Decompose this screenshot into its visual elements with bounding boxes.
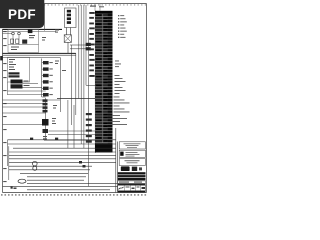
sensor B3	[42, 74, 53, 77]
valve Y2	[43, 103, 48, 106]
breaker Q1 cross	[64, 35, 71, 43]
title block left boundary	[117, 142, 119, 193]
terminal X4	[86, 47, 91, 50]
buzzer H1	[33, 161, 38, 166]
wire bus L1	[3, 52, 76, 54]
inline device d1	[30, 138, 33, 140]
wire g1	[23, 82, 39, 84]
relay K6	[11, 84, 23, 88]
svg-text:PDF: PDF	[8, 7, 36, 22]
relay K1 box	[28, 29, 33, 33]
pushbutton S1	[12, 32, 15, 35]
pushbutton S2	[18, 32, 21, 35]
logo mark 3	[139, 167, 142, 170]
drawing frame bottom border	[3, 192, 147, 194]
sensor B1	[42, 61, 53, 64]
wire chain2 w4	[3, 123, 43, 125]
wire chain2 w3	[3, 112, 46, 114]
K5 label	[24, 81, 30, 87]
title cell client	[119, 150, 145, 157]
drawing frame top border	[3, 3, 147, 5]
wire bus L3	[3, 57, 61, 59]
title signature table	[118, 185, 146, 190]
wire row m2	[3, 99, 61, 101]
wire chain2 w1	[3, 102, 43, 104]
left border zone labels	[3, 31, 6, 182]
title revision row	[118, 181, 146, 184]
sensor B4	[42, 80, 53, 83]
control unit A1 outline	[8, 30, 39, 53]
terminal X3	[86, 43, 91, 46]
PDF badge	[0, 0, 44, 28]
horn symbol	[18, 179, 26, 183]
valve chain rail	[45, 98, 47, 140]
wire chain2 out2	[48, 134, 95, 136]
wire S1 stub	[3, 34, 14, 45]
wire X4 left	[70, 48, 86, 50]
G1 text rows	[9, 59, 16, 70]
drawing frame right border	[146, 4, 148, 193]
lamp symbol	[11, 187, 17, 189]
text cluster r2	[115, 75, 126, 94]
wire Q1 down	[67, 42, 69, 53]
wire horizontal under badge	[3, 28, 63, 30]
title cell description	[119, 159, 145, 166]
vertical wire riser group	[60, 5, 95, 186]
wire chain2 out3	[44, 139, 95, 141]
relay K2 box	[22, 40, 27, 44]
wire S2 stub	[18, 35, 20, 45]
valve Y1	[43, 99, 48, 102]
valve Y4	[43, 110, 48, 113]
power supply G1 outline	[8, 57, 30, 82]
title dark bar 3	[118, 178, 146, 180]
wire g3	[8, 90, 46, 92]
TB1 destination text column top	[118, 15, 127, 38]
wire A1 internal	[8, 44, 39, 46]
wire X1 down-left	[66, 28, 68, 35]
drawing frame bottom zone ticks	[1, 194, 148, 196]
logo mark 1	[121, 166, 130, 171]
text cluster r3	[114, 97, 130, 113]
wire g4	[8, 93, 42, 95]
terminal strip TB1 rows	[95, 14, 113, 143]
sensor B2	[42, 67, 53, 70]
relay K5	[11, 80, 23, 84]
inline device d2	[55, 138, 58, 140]
breaker Q1 box	[64, 35, 71, 43]
wire bus L2	[3, 54, 76, 56]
G1 left rail	[7, 82, 9, 95]
relay K3	[42, 119, 49, 126]
label near Q1	[55, 30, 59, 33]
wire chain2 out1	[49, 130, 96, 132]
bottom wire bundle upper	[8, 140, 116, 180]
logo mark 2	[132, 167, 137, 171]
contact S3	[11, 39, 14, 43]
title dark bar 2	[118, 175, 146, 177]
left border label box	[0, 56, 3, 60]
wire row m1	[57, 98, 96, 100]
label K4	[43, 136, 47, 139]
TB1 wire tags left	[86, 12, 95, 143]
terminal strip TB1 left rail	[94, 11, 96, 154]
title thin dark row	[118, 184, 146, 186]
valve Y3	[43, 106, 48, 109]
contact S4	[16, 39, 19, 43]
bundle stub vertical	[7, 140, 9, 166]
wire chain2 w2	[3, 106, 43, 108]
inline device d4	[83, 165, 86, 168]
G1 dark bar 2	[9, 75, 20, 77]
terminal strip TB1 header	[95, 11, 113, 14]
buzzer H2	[33, 166, 37, 170]
strip rail to border	[95, 4, 100, 11]
sensor chain rail	[42, 59, 46, 98]
wire g2	[23, 87, 42, 89]
stray label t1	[42, 6, 104, 125]
title cell project	[119, 142, 145, 149]
left stub wires	[8, 146, 10, 180]
sensor B5	[42, 87, 53, 90]
connector X1 pins	[67, 10, 71, 24]
sensor B6	[42, 93, 53, 96]
wire X1 down-right	[70, 28, 72, 35]
G1 dark bar 1	[9, 72, 20, 74]
title bottom dark row	[118, 191, 146, 193]
drawing frame left border	[2, 29, 4, 193]
riser to title area	[115, 128, 117, 193]
terminal strip TB1 footer block	[95, 143, 113, 152]
relay K4	[43, 129, 49, 133]
drawing frame top zone ticks	[44, 4, 147, 6]
text cluster r4	[112, 115, 127, 125]
title dark bar 1	[118, 172, 146, 174]
wire X3 left	[70, 44, 86, 46]
wire vertical right of badge	[44, 4, 46, 31]
label text A1	[11, 35, 35, 50]
wire top bus to strip	[3, 30, 57, 32]
text cluster r1	[115, 61, 121, 68]
inline device d3	[79, 161, 82, 164]
bottom wire bundle lower	[3, 183, 118, 190]
connector X1 outline	[65, 8, 77, 28]
